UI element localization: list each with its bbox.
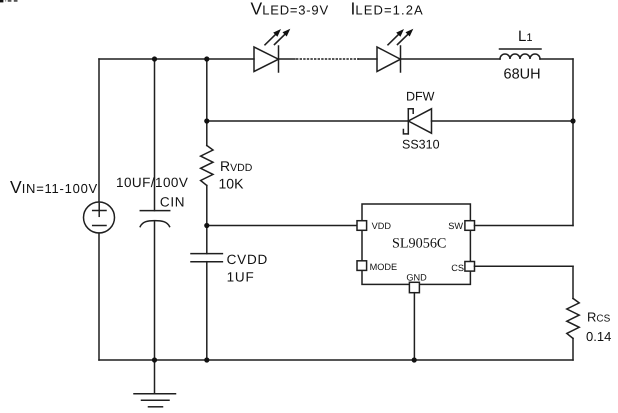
wire CIN bottom <box>154 221 156 360</box>
LED D2 <box>377 46 401 72</box>
svg-text:10UF/100V: 10UF/100V <box>116 175 188 190</box>
node DFW right junction <box>570 118 575 123</box>
svg-text:GND: GND <box>406 272 427 282</box>
svg-text:0.14: 0.14 <box>586 329 611 344</box>
stray cropped text fragment top-left <box>0 0 18 2</box>
svg-text:CS: CS <box>451 263 464 273</box>
node bottom rail GND junction <box>412 357 417 362</box>
svg-text:SL9056C: SL9056C <box>392 236 446 252</box>
resistor RCS <box>567 298 579 338</box>
IC U1 SL9056C body <box>362 204 470 284</box>
wire RCS top stem <box>572 266 574 298</box>
LED D2 light arrows <box>388 29 413 45</box>
pin MODE <box>357 261 367 271</box>
svg-text:CVDD: CVDD <box>227 252 268 267</box>
resistor RVDD <box>201 146 213 186</box>
pin SW <box>465 221 475 231</box>
svg-text:MODE: MODE <box>370 262 398 272</box>
wire RCS bottom <box>572 338 574 360</box>
svg-text:10K: 10K <box>219 176 245 192</box>
node top rail CIN junction <box>152 56 157 61</box>
wire LED2 cathode to L1 <box>401 58 501 60</box>
wire LED2 anode stub <box>358 58 377 60</box>
svg-text:SW: SW <box>448 221 463 231</box>
node bottom rail CIN junction <box>152 357 157 362</box>
node DFW left junction <box>204 118 209 123</box>
capacitor CIN (polarized) <box>140 211 170 227</box>
svg-text:1UF: 1UF <box>227 270 255 285</box>
ground <box>134 394 176 407</box>
wire VDD node to CVDD <box>206 226 208 254</box>
wire SW to right rail <box>475 225 574 227</box>
pin CS <box>465 262 475 272</box>
wire dashed LED string continuation <box>296 58 359 60</box>
inductor L1 <box>500 49 542 59</box>
svg-text:68UH: 68UH <box>504 67 541 83</box>
node VDD junction <box>204 223 209 228</box>
wire VIN bottom <box>98 233 100 360</box>
wire RVDD top stem <box>206 121 208 146</box>
wire DFW line <box>207 120 408 122</box>
wire RVDD bottom to VDD node <box>206 186 208 226</box>
pin GND <box>409 282 419 292</box>
diode DFW (schottky) <box>403 109 431 134</box>
svg-text:DFW: DFW <box>406 90 435 104</box>
wire top net: VIN+ to LED1 anode <box>99 58 254 60</box>
LED D1 light arrows <box>265 29 290 45</box>
capacitor CVDD <box>191 254 222 262</box>
node bottom rail CVDD junction <box>204 357 209 362</box>
LED D1 <box>254 46 279 72</box>
wire VIN top <box>98 59 100 202</box>
wire ground stem <box>154 360 156 394</box>
wire VDD line <box>207 225 357 227</box>
svg-text:SS310: SS310 <box>402 138 440 152</box>
svg-text:ILED=1.2A: ILED=1.2A <box>351 0 424 19</box>
wire bottom rail <box>99 359 573 361</box>
wire right rail down to SW <box>572 59 574 226</box>
svg-text:VDD: VDD <box>372 221 392 231</box>
wire CVDD bottom <box>206 262 208 360</box>
wire CS to RCS rail <box>475 265 574 267</box>
voltage source VIN <box>84 202 115 233</box>
wire L1 to right rail <box>540 58 573 60</box>
wire GND pin down <box>413 293 415 360</box>
pin VDD <box>357 221 367 231</box>
node top rail RVDD junction <box>204 56 209 61</box>
wire LED1 cathode stub <box>279 58 296 60</box>
wire top rail to RVDD <box>206 59 208 121</box>
svg-text:CIN: CIN <box>160 195 185 210</box>
wire CIN top <box>154 59 156 211</box>
svg-text:VLED=3-9V: VLED=3-9V <box>251 0 329 19</box>
